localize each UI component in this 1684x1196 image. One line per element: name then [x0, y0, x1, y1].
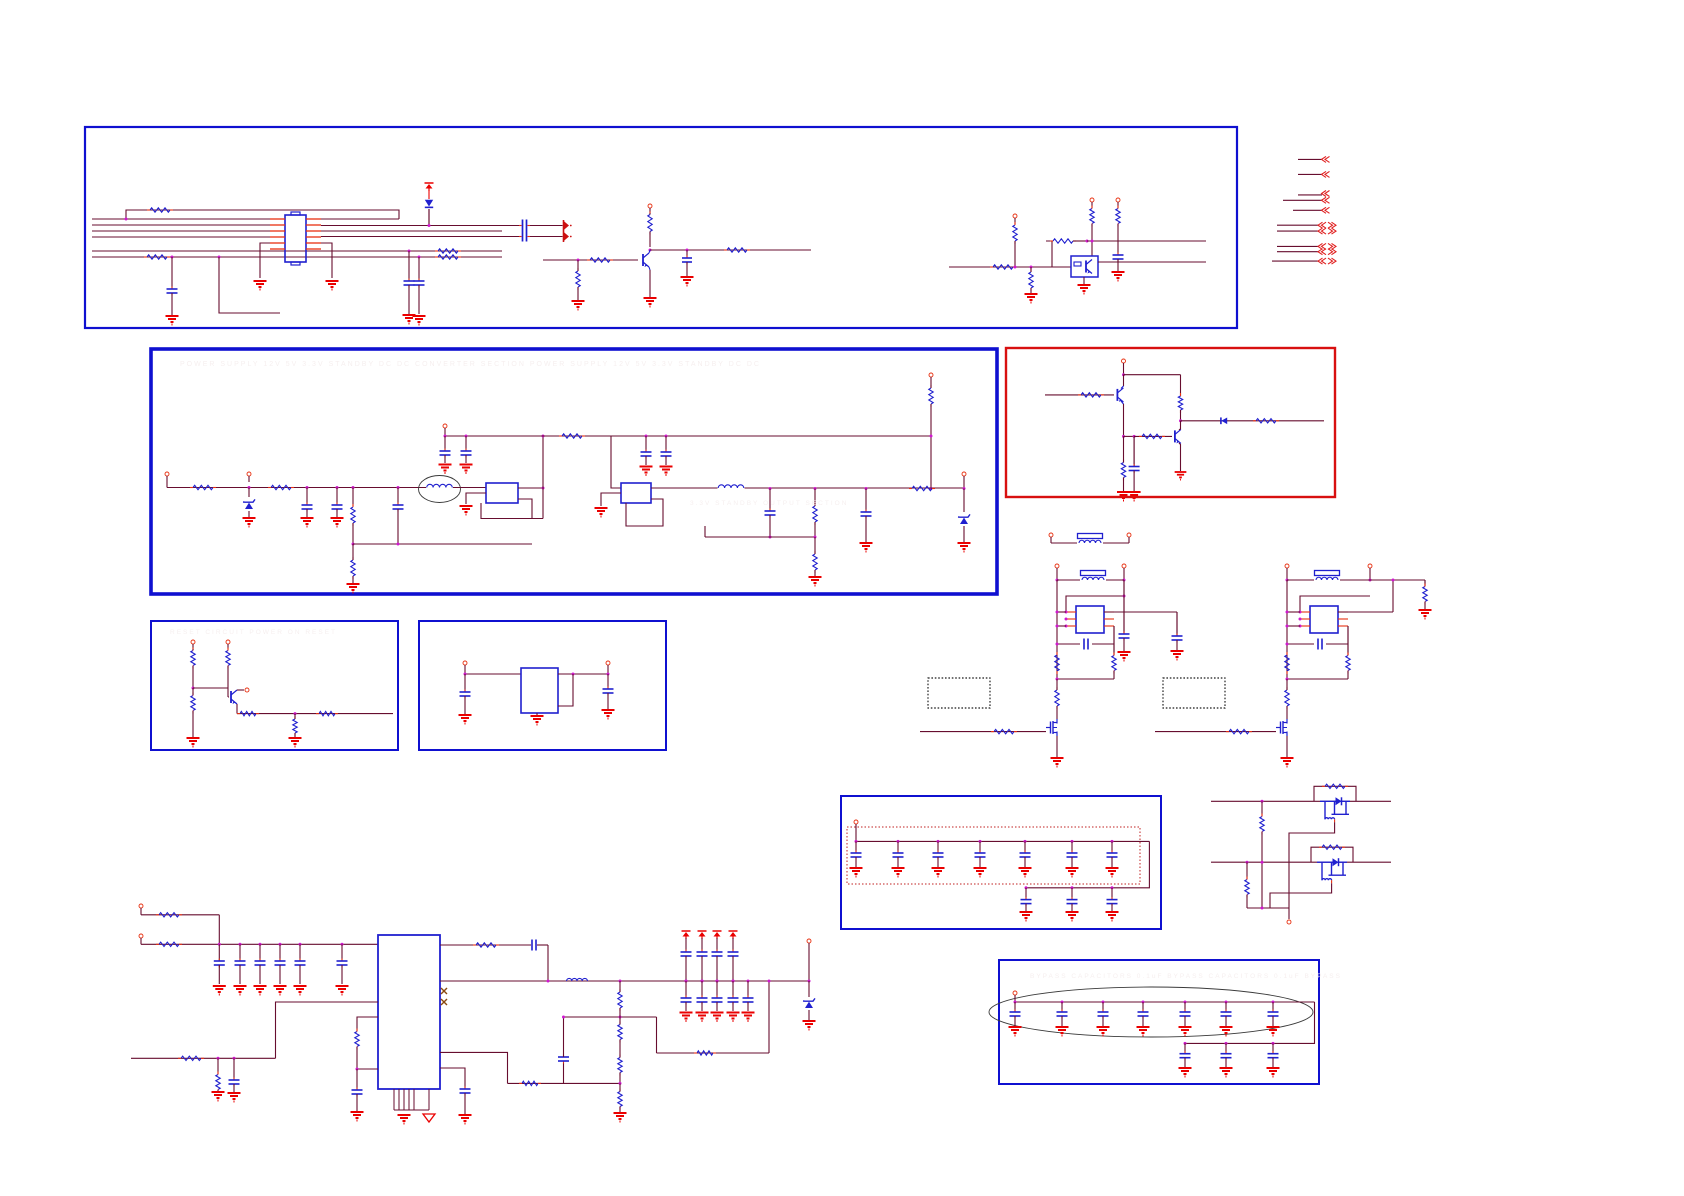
- svg-text:BYPASS CAPACITORS 0.1uF BYPA: BYPASS CAPACITORS 0.1uF BYPASS CAPACITOR…: [1030, 973, 1342, 980]
- svg-text:3.3V STANDBY OUTPUT SECTION: 3.3V STANDBY OUTPUT SECTION: [690, 500, 848, 507]
- svg-text:POWER SUPPLY 12V 5V 3.3V STAND: POWER SUPPLY 12V 5V 3.3V STANDBY DC DC C…: [180, 361, 761, 368]
- svg-text:RESET CIRCUIT POWER ON RESET: RESET CIRCUIT POWER ON RESET: [170, 629, 337, 636]
